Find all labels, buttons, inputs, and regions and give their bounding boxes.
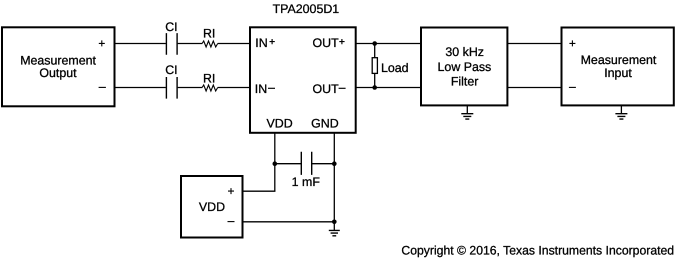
wire: CI top to RI top bbox=[178, 43, 203, 45]
svg-text:Output: Output bbox=[39, 66, 77, 80]
wire: output- to CI bottom bbox=[115, 87, 166, 89]
svg-text:Low Pass: Low Pass bbox=[438, 60, 492, 74]
junction dot OUT+ bbox=[372, 41, 377, 46]
terminal + (Measurement Output) bbox=[99, 40, 105, 46]
pin label IN+ bbox=[255, 36, 274, 50]
pin label IN- bbox=[255, 82, 275, 96]
power source VDD block bbox=[181, 176, 243, 238]
block: Measurement Input bbox=[562, 28, 674, 106]
svg-text:RI: RI bbox=[203, 71, 215, 85]
load resistor bbox=[372, 44, 377, 88]
wire: filter to input- bbox=[507, 87, 561, 89]
capacitor C 1mF bbox=[301, 152, 311, 175]
capacitor CI (bottom) bbox=[166, 77, 177, 99]
svg-text:Filter: Filter bbox=[451, 75, 479, 89]
svg-text:TPA2005D1: TPA2005D1 bbox=[273, 2, 340, 16]
wire: CI bottom to RI bottom bbox=[178, 87, 203, 89]
junction dot GND/1mF bbox=[332, 161, 337, 166]
svg-text:30 kHz: 30 kHz bbox=[445, 45, 484, 59]
svg-text:GND: GND bbox=[311, 117, 339, 131]
wire: output+ to CI top bbox=[115, 43, 166, 45]
wire: VDD+ to VDD pin bbox=[243, 190, 276, 192]
wire: filter to input+ bbox=[507, 43, 561, 45]
resistor RI (top) bbox=[202, 41, 218, 47]
svg-text:IN: IN bbox=[255, 36, 267, 50]
capacitor CI (top) bbox=[166, 33, 177, 55]
terminal - (Measurement Output) bbox=[99, 86, 106, 88]
svg-text:Measurement: Measurement bbox=[581, 53, 657, 67]
svg-text:Load: Load bbox=[381, 61, 409, 75]
junction dot OUT- bbox=[372, 85, 377, 90]
wire: GND pin down bbox=[333, 133, 335, 222]
svg-text:CI: CI bbox=[165, 63, 177, 77]
wire: VDD node to 1mF bbox=[275, 163, 301, 165]
pin label OUT- bbox=[313, 82, 346, 96]
op-amp U1 TPA2005D1 block outline bbox=[250, 27, 356, 133]
block: Measurement Output bbox=[2, 27, 115, 106]
wire: VDD- to ground bbox=[243, 221, 335, 223]
terminal - (VDD) bbox=[228, 221, 235, 223]
svg-text:IN: IN bbox=[255, 82, 267, 96]
svg-text:VDD: VDD bbox=[267, 117, 293, 131]
ground (filter) bbox=[461, 105, 473, 119]
svg-text:CI: CI bbox=[165, 20, 177, 34]
terminal + (Measurement Input) bbox=[569, 40, 575, 46]
resistor RI (bottom) bbox=[202, 85, 218, 91]
wire: RI bottom to IN- bbox=[218, 87, 250, 89]
terminal - (Measurement Input) bbox=[569, 86, 576, 88]
svg-text:Copyright © 2016, Texas Instru: Copyright © 2016, Texas Instruments Inco… bbox=[401, 243, 674, 257]
pin label OUT+ bbox=[313, 36, 345, 50]
wire: OUT- to filter bbox=[356, 87, 421, 89]
svg-text:VDD: VDD bbox=[199, 200, 225, 214]
block: 30 kHz Low Pass Filter bbox=[421, 28, 507, 106]
svg-text:1 mF: 1 mF bbox=[292, 175, 321, 189]
wire: OUT+ to filter bbox=[356, 43, 421, 45]
ground (Measurement Input) bbox=[615, 105, 627, 119]
svg-text:Input: Input bbox=[604, 66, 632, 80]
svg-text:OUT: OUT bbox=[313, 36, 340, 50]
wire: RI top to IN+ bbox=[218, 43, 250, 45]
junction dot ground node bbox=[332, 220, 337, 225]
junction dot VDD/1mF bbox=[273, 161, 278, 166]
wire: VDD pin down bbox=[274, 133, 276, 191]
wire: 1mF to GND node bbox=[312, 163, 334, 165]
terminal + (VDD) bbox=[228, 188, 234, 194]
svg-text:OUT: OUT bbox=[313, 82, 340, 96]
ground (main) bbox=[329, 222, 340, 236]
svg-text:RI: RI bbox=[203, 26, 215, 40]
